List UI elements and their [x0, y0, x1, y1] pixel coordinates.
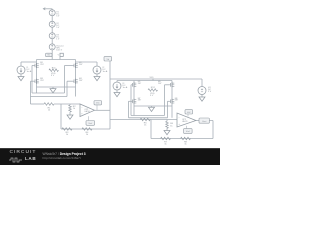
svg-text:2N7: 2N7 [40, 64, 43, 66]
svg-text:5 V: 5 V [51, 75, 55, 77]
svg-text:5 V: 5 V [150, 95, 154, 97]
svg-text:V: V [58, 55, 60, 57]
svg-text:1m A: 1m A [103, 70, 108, 73]
svg-text:1k: 1k [144, 125, 147, 127]
svg-text:1k: 1k [48, 110, 51, 112]
svg-text:2N7: 2N7 [79, 64, 82, 66]
svg-text:1k: 1k [73, 108, 76, 110]
svg-text:Vin: Vin [47, 54, 50, 56]
svg-text:VDD: VDD [150, 77, 155, 79]
svg-text:Vref: Vref [186, 130, 190, 133]
svg-text:2N7: 2N7 [79, 80, 82, 82]
svg-text:2N7: 2N7 [138, 100, 141, 102]
svg-text:UA741: UA741 [182, 120, 188, 123]
svg-text:2N7: 2N7 [175, 100, 178, 102]
svg-text:UA741: UA741 [84, 110, 90, 113]
svg-text:5 V: 5 V [56, 27, 60, 29]
svg-text:1k: 1k [66, 134, 69, 136]
svg-text:1 V: 1 V [56, 38, 60, 40]
svg-text:5 V: 5 V [56, 15, 60, 17]
svg-text:−: − [81, 107, 83, 110]
svg-text:1m A: 1m A [123, 86, 128, 89]
svg-text:2N7: 2N7 [138, 83, 141, 85]
svg-text:1k: 1k [184, 144, 187, 146]
svg-text:1k: 1k [164, 144, 167, 146]
svg-text:5 V: 5 V [208, 91, 212, 93]
svg-text:1k: 1k [86, 134, 89, 136]
svg-text:−: − [178, 116, 180, 119]
svg-text:1k: 1k [170, 126, 173, 128]
svg-text:2N7: 2N7 [40, 80, 43, 82]
svg-text:10m V: 10m V [56, 50, 63, 52]
svg-text:Vref: Vref [88, 122, 92, 125]
svg-text:2N7: 2N7 [158, 83, 161, 85]
svg-text:1m A: 1m A [27, 70, 32, 73]
svg-text:Vout: Vout [202, 120, 207, 123]
